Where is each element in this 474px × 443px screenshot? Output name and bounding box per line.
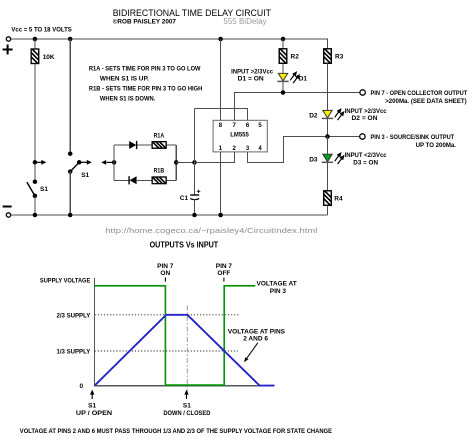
svg-text:INPUT >2/3Vcc: INPUT >2/3Vcc: [345, 108, 387, 115]
graph axes: [95, 278, 272, 386]
copyright label: [113, 18, 177, 26]
wire pin 7 to output line: [234, 93, 360, 121]
svg-text:S1: S1: [88, 402, 96, 409]
caption: [20, 428, 333, 435]
svg-text:OUTPUTS Vs INPUT: OUTPUTS Vs INPUT: [150, 241, 219, 250]
svg-text:S1: S1: [81, 172, 89, 179]
resistor R2: [278, 46, 300, 66]
svg-text:INPUT >2/3Vcc: INPUT >2/3Vcc: [231, 68, 273, 75]
svg-text:2/3 SUPPLY: 2/3 SUPPLY: [57, 312, 91, 319]
switch S1a: [27, 160, 48, 198]
note R1B timing: [89, 85, 203, 102]
svg-text:DOWN / CLOSED: DOWN / CLOSED: [163, 410, 210, 417]
node bottom rail @70.2: [68, 213, 73, 218]
svg-text:PIN 3: PIN 3: [270, 288, 287, 295]
svg-text:>200Ma. (SEE DATA SHEET): >200Ma. (SEE DATA SHEET): [385, 98, 467, 105]
node pin3 / D2 D3: [325, 134, 330, 139]
node bottom rail @34.9: [33, 213, 38, 218]
url: [105, 226, 318, 235]
axis label 2/3 supply: [57, 312, 91, 319]
diode (top, anode left): [129, 141, 136, 149]
LED D1: [277, 71, 307, 83]
wire network loop right: [175, 145, 177, 180]
linkage arrow at network input: [101, 160, 114, 165]
svg-text:R1A - SETS TIME FOR PIN 3 TO G: R1A - SETS TIME FOR PIN 3 TO GO LOW: [89, 66, 201, 73]
axis label 1/3 supply: [57, 348, 91, 355]
svg-text:PIN 3 - SOURCE/SINK OUTPUT: PIN 3 - SOURCE/SINK OUTPUT: [371, 134, 455, 141]
capacitor C1: [180, 190, 201, 202]
wire R4 to bottom rail: [327, 205, 329, 215]
svg-text:D2: D2: [309, 113, 318, 120]
terminal - (negative supply): [3, 207, 12, 218]
label S1 down/closed: [163, 402, 210, 417]
svg-text:C1: C1: [180, 195, 189, 202]
resistor 10K: [29, 46, 55, 66]
svg-text:ON: ON: [160, 270, 170, 277]
svg-text:WHEN S1 IS DOWN.: WHEN S1 IS DOWN.: [100, 96, 156, 103]
svg-text:R1B: R1B: [154, 167, 165, 174]
node bottom rail @220.6: [218, 213, 223, 218]
node top rail @70.2: [68, 37, 73, 42]
svg-text:PIN 7: PIN 7: [216, 263, 233, 270]
svg-text:D1: D1: [299, 76, 308, 83]
svg-text:©ROB PAISLEY 2007: ©ROB PAISLEY 2007: [113, 18, 177, 26]
label pin 7 off: [216, 263, 233, 277]
wire R2 to D1: [282, 63, 284, 73]
wire rail corner to R3: [327, 39, 329, 49]
svg-text:D3 = ON: D3 = ON: [353, 160, 378, 167]
tick pin7 off: [223, 278, 225, 282]
node network left: [112, 160, 117, 165]
subtitle 555 BiDelay: [223, 17, 266, 26]
svg-text:UP TO 200Ma.: UP TO 200Ma.: [416, 142, 457, 149]
D3 condition label: [345, 152, 387, 166]
node bottom rail @194.5: [192, 213, 197, 218]
svg-text:2 AND 6: 2 AND 6: [243, 336, 268, 343]
svg-text:LM555: LM555: [230, 132, 249, 139]
node network right: [174, 160, 179, 165]
wire rail to R2: [282, 39, 284, 49]
resistor R3: [322, 46, 344, 66]
node pins 2-6 junction: [192, 160, 197, 165]
svg-text:R1B - SETS TIME FOR PIN 3 TO G: R1B - SETS TIME FOR PIN 3 TO GO HIGH: [89, 85, 203, 92]
wire 10K to switch S1a: [34, 64, 36, 182]
linkage arrow S1a: [35, 160, 46, 165]
svg-text:D3: D3: [309, 157, 318, 164]
label S1 up/open: [76, 402, 113, 417]
svg-text:PIN 7 - OPEN COLLECTOR OUTPUT: PIN 7 - OPEN COLLECTOR OUTPUT: [371, 90, 468, 97]
terminal pin 3 output: [360, 134, 456, 149]
svg-text:R3: R3: [335, 54, 344, 61]
marker arrow S1 down: [184, 390, 188, 399]
pointer arrow to blue trace: [244, 343, 258, 362]
Vcc label: [11, 26, 72, 33]
svg-text:WHEN S1 IS UP.: WHEN S1 IS UP.: [100, 76, 149, 83]
wire D1 to pin7 line: [282, 81, 284, 92]
label voltage at pins 2 and 6: [228, 328, 286, 342]
svg-text:SUPPLY VOLTAGE: SUPPLY VOLTAGE: [40, 277, 91, 284]
gridline 2/3 dotted: [95, 314, 240, 316]
wire pin3 node to D3: [327, 137, 329, 155]
trace pin 3 output (green): [95, 286, 256, 385]
wire rail to S1b: [69, 39, 71, 154]
wire pin 2 to junction: [195, 152, 235, 163]
svg-text:INPUT <2/3Vcc: INPUT <2/3Vcc: [345, 152, 387, 159]
wire pin 1 to bottom rail: [220, 152, 222, 215]
wire pin 3 to output: [248, 137, 360, 163]
wire network to junction: [176, 161, 194, 163]
svg-text:D2 = ON: D2 = ON: [352, 115, 378, 122]
wire pin 8 to top rail: [220, 39, 222, 120]
op-amp/timer U1 LM555 box: [213, 120, 267, 152]
node top rail @34.9: [33, 37, 38, 42]
wire network bottom branch: [114, 179, 176, 181]
wire top rail: [11, 38, 328, 40]
gridline 1/3 dotted: [95, 350, 238, 352]
node top rail @220.6: [218, 37, 223, 42]
wire C1 to bottom rail: [194, 199, 196, 215]
wire bottom rail: [11, 214, 328, 216]
D1 condition label: [231, 68, 273, 82]
wire D2 to pin3 node: [327, 118, 329, 136]
svg-text:UP / OPEN: UP / OPEN: [76, 410, 113, 417]
wire S1a to bottom rail: [34, 196, 36, 215]
svg-text:555 BiDelay: 555 BiDelay: [223, 17, 266, 26]
wire S1b to bottom rail: [69, 172, 71, 215]
linkage arrow S1b: [79, 160, 92, 165]
wire junction vertical / to C1: [194, 109, 196, 195]
svg-text:VOLTAGE AT PINS: VOLTAGE AT PINS: [228, 328, 286, 335]
svg-text:D1 = ON: D1 = ON: [238, 76, 264, 83]
resistor R1B: [151, 167, 168, 185]
svg-text:1/3 SUPPLY: 1/3 SUPPLY: [57, 348, 91, 355]
axis label supply voltage: [40, 277, 91, 284]
svg-text:R4: R4: [334, 196, 343, 203]
wire network top branch: [114, 144, 176, 146]
node top rail @283: [281, 37, 286, 42]
trace input pins 2 and 6 (blue): [95, 315, 275, 386]
svg-text:VOLTAGE AT PINS 2 AND 6 MUST P: VOLTAGE AT PINS 2 AND 6 MUST PASS THROUG…: [20, 428, 333, 435]
terminal pin 7 output: [360, 90, 467, 105]
svg-text:PIN 7: PIN 7: [157, 263, 174, 270]
svg-text:R2: R2: [291, 54, 300, 61]
wire rail to 10K: [34, 39, 36, 49]
svg-text:http://home.cogeco.ca/~rpaisle: http://home.cogeco.ca/~rpaisley4/Circuit…: [105, 226, 318, 235]
resistor R4: [322, 188, 343, 208]
LED D3: [309, 152, 344, 164]
svg-text:Vcc = 5 TO 18 VOLTS: Vcc = 5 TO 18 VOLTS: [11, 26, 72, 33]
tick pin7 on: [164, 278, 166, 282]
terminal + (positive supply): [3, 37, 13, 55]
node D1 / pin7 line: [281, 90, 286, 95]
svg-text:OFF: OFF: [217, 270, 230, 277]
svg-text:S1: S1: [183, 402, 191, 409]
dash-dot marker S1 down: [186, 306, 188, 392]
svg-text:R1A: R1A: [154, 132, 165, 139]
D2 condition label: [345, 108, 387, 122]
switch S1b: [68, 151, 90, 178]
label voltage at pin 3: [256, 280, 296, 295]
svg-text:0: 0: [80, 383, 84, 390]
LED D2: [309, 108, 344, 120]
axis label 0: [80, 383, 84, 390]
note R1A timing: [89, 66, 201, 83]
wire pin 6 to junction: [195, 109, 248, 121]
marker arrow S1 up: [90, 390, 94, 399]
resistor R1A: [151, 132, 168, 150]
wire D3 to R4: [327, 162, 329, 191]
label pin 7 on: [157, 263, 174, 277]
title: [113, 8, 271, 19]
svg-text:VOLTAGE AT: VOLTAGE AT: [256, 280, 296, 287]
graph title: [150, 241, 219, 250]
wire R3 to D2: [327, 63, 329, 110]
wire network loop left: [113, 145, 115, 180]
svg-text:10K: 10K: [43, 54, 55, 61]
diode (bottom, anode right): [129, 176, 137, 184]
svg-text:S1: S1: [40, 186, 48, 193]
